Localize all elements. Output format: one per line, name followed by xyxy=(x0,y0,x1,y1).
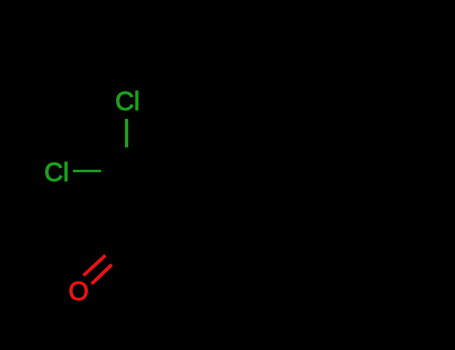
svg-text:Cl: Cl xyxy=(44,157,69,187)
svg-text:O: O xyxy=(69,276,89,306)
svg-text:Cl: Cl xyxy=(115,86,140,116)
